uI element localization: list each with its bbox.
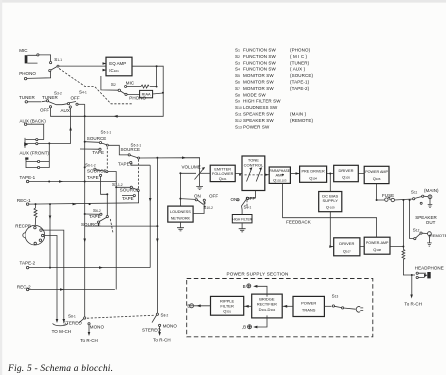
svg-text:S1-1: S1-1: [54, 57, 62, 62]
svg-text:POWER AMP: POWER AMP: [365, 170, 388, 174]
svg-text:PHONO: PHONO: [19, 71, 36, 76]
svg-text:MONO: MONO: [90, 324, 105, 329]
svg-text:DRIVER: DRIVER: [339, 241, 354, 246]
svg-text:PHONO: PHONO: [129, 96, 146, 101]
svg-text:S6: S6: [235, 80, 240, 85]
svg-text:HIGH FILTER SW: HIGH FILTER SW: [243, 99, 281, 104]
svg-text:B: B: [243, 284, 246, 289]
svg-text:(SOURCE): (SOURCE): [290, 73, 313, 78]
svg-text:S8-1: S8-1: [68, 314, 76, 319]
svg-text:SPEAKER SW: SPEAKER SW: [243, 118, 274, 123]
svg-text:TAPE: TAPE: [87, 175, 99, 180]
svg-text:S10-2: S10-2: [203, 205, 213, 210]
svg-text:SUPPLY: SUPPLY: [322, 198, 338, 203]
svg-text:FUNCTION SW: FUNCTION SW: [243, 54, 276, 59]
svg-text:AUX (BACK): AUX (BACK): [20, 119, 47, 124]
svg-text:MONITOR SW: MONITOR SW: [243, 80, 274, 85]
svg-text:OFF: OFF: [40, 108, 49, 113]
svg-text:STEREO: STEREO: [142, 327, 161, 332]
svg-text:MIC: MIC: [126, 81, 135, 86]
svg-text:CONTROL: CONTROL: [244, 162, 264, 167]
svg-text:D301-D304: D301-D304: [259, 307, 276, 312]
svg-text:TAPE 2: TAPE 2: [118, 161, 133, 166]
svg-text:OFF: OFF: [246, 196, 255, 201]
svg-text:FEEDBACK: FEEDBACK: [286, 220, 311, 225]
svg-text:Fig. 5 - Schema a blocchi.: Fig. 5 - Schema a blocchi.: [7, 364, 113, 374]
svg-text:ON: ON: [194, 194, 201, 199]
svg-text:Q108: Q108: [373, 247, 381, 252]
svg-text:REC-1: REC-1: [17, 198, 31, 203]
svg-text:FUSE: FUSE: [382, 193, 394, 198]
svg-text:HEADPHONE: HEADPHONE: [415, 265, 444, 270]
svg-text:(MAIN): (MAIN): [424, 188, 439, 193]
svg-text:OFF: OFF: [71, 96, 80, 101]
svg-text:S12: S12: [235, 118, 242, 123]
svg-text:HIGH FILTER: HIGH FILTER: [232, 217, 252, 221]
svg-text:TAPE-2: TAPE-2: [20, 261, 36, 266]
svg-text:OUT: OUT: [426, 220, 436, 225]
svg-text:(REMOTE): (REMOTE): [429, 233, 446, 238]
svg-text:To R-CH: To R-CH: [404, 301, 422, 306]
svg-text:Q105: Q105: [342, 175, 350, 180]
svg-text:S6-2: S6-2: [93, 208, 101, 213]
svg-text:MONITOR SW: MONITOR SW: [243, 86, 274, 91]
svg-text:S2: S2: [235, 54, 240, 59]
svg-text:(TUNER): (TUNER): [290, 60, 310, 65]
svg-text:S12: S12: [413, 228, 420, 233]
svg-text:MIC: MIC: [19, 48, 28, 53]
svg-text:Q-109: Q-109: [326, 204, 335, 209]
svg-text:(PHONO): (PHONO): [290, 48, 311, 53]
svg-text:TAPE: TAPE: [92, 150, 104, 155]
svg-text:Q104: Q104: [309, 175, 317, 180]
svg-text:FUNCTION SW: FUNCTION SW: [243, 60, 276, 65]
svg-text:S8-2: S8-2: [161, 313, 169, 318]
svg-text:IC101: IC101: [109, 68, 119, 73]
svg-text:S4: S4: [235, 67, 240, 72]
svg-text:S8: S8: [235, 92, 240, 97]
svg-text:RECTIFIER: RECTIFIER: [257, 303, 277, 307]
svg-text:OFF: OFF: [209, 194, 218, 199]
svg-text:NETWORK: NETWORK: [171, 216, 191, 220]
svg-text:RECPB: RECPB: [15, 223, 31, 228]
svg-text:,B: ,B: [242, 325, 246, 330]
svg-text:POWER-AMP: POWER-AMP: [366, 241, 389, 245]
svg-text:TO M-CH: TO M-CH: [52, 329, 72, 334]
svg-text:FUNCTION SW: FUNCTION SW: [243, 48, 276, 53]
svg-text:S9: S9: [235, 99, 240, 104]
svg-text:FUNCTION SW: FUNCTION SW: [243, 67, 276, 72]
svg-text:TAPE: TAPE: [89, 214, 101, 219]
svg-text:S13: S13: [235, 124, 242, 129]
svg-text:TAPE-1: TAPE-1: [20, 175, 36, 180]
svg-text:TRANS: TRANS: [302, 307, 316, 312]
svg-text:Q107: Q107: [343, 248, 351, 253]
svg-text:SOURCE: SOURCE: [121, 147, 141, 152]
svg-text:VOLUME: VOLUME: [182, 164, 201, 169]
svg-text:S13: S13: [332, 294, 339, 299]
svg-text:S2: S2: [111, 82, 116, 87]
svg-text:S11: S11: [411, 189, 418, 194]
svg-text:FOLLOWER: FOLLOWER: [212, 172, 234, 176]
svg-text:REC-2: REC-2: [17, 284, 31, 289]
svg-text:AUX: AUX: [61, 108, 70, 113]
svg-text:SOURCE: SOURCE: [87, 136, 107, 141]
svg-text:(TAPE-1): (TAPE-1): [290, 80, 310, 85]
svg-text:S11: S11: [235, 112, 242, 117]
svg-text:S6-1-2: S6-1-2: [85, 163, 96, 168]
svg-text:S3: S3: [235, 60, 240, 65]
svg-text:Q102,103: Q102,103: [273, 177, 287, 182]
svg-text:BRIDGE: BRIDGE: [259, 297, 275, 302]
svg-text:MONITOR SW: MONITOR SW: [243, 73, 274, 78]
svg-text:ON: ON: [231, 197, 238, 202]
svg-text:Q106: Q106: [373, 176, 381, 181]
svg-text:POWER SUPPLY SECTION: POWER SUPPLY SECTION: [226, 271, 288, 276]
svg-text:AUX (FRONT): AUX (FRONT): [20, 151, 50, 156]
svg-text:EMITTER: EMITTER: [214, 167, 231, 171]
svg-text:S10: S10: [235, 105, 242, 110]
svg-text:LOUDNESS: LOUDNESS: [170, 210, 191, 214]
svg-text:S4-1: S4-1: [79, 90, 87, 95]
svg-text:MONO: MONO: [163, 324, 178, 329]
svg-text:STEREO: STEREO: [63, 321, 82, 326]
svg-text:MODE SW: MODE SW: [243, 92, 266, 97]
svg-text:TUNER: TUNER: [42, 95, 58, 100]
svg-text:S9-1: S9-1: [244, 205, 252, 210]
svg-text:POWER SW: POWER SW: [243, 124, 270, 129]
svg-text:EQ AMP: EQ AMP: [109, 61, 126, 66]
svg-text:TUNER: TUNER: [19, 95, 35, 100]
svg-text:SPEAKER SW: SPEAKER SW: [243, 112, 274, 117]
svg-text:TAPE: TAPE: [122, 196, 134, 201]
svg-text:Q101: Q101: [219, 176, 227, 181]
svg-text:PRE DRIVER: PRE DRIVER: [301, 170, 324, 174]
svg-text:( M I C ): ( M I C ): [290, 54, 308, 59]
svg-text:S5-1-1: S5-1-1: [101, 130, 112, 135]
svg-text:POWER: POWER: [301, 300, 316, 305]
svg-text:S7: S7: [235, 86, 240, 91]
svg-text:B: B: [187, 304, 190, 309]
svg-text:( AUX ): ( AUX ): [290, 67, 306, 72]
svg-text:(TAPE-2): (TAPE-2): [290, 86, 310, 91]
svg-text:LOUDNESS SW: LOUDNESS SW: [243, 105, 278, 110]
svg-text:(MAIN ): (MAIN ): [290, 112, 307, 117]
svg-text:DRIVER: DRIVER: [338, 168, 353, 173]
svg-text:To R-CH: To R-CH: [153, 338, 171, 343]
svg-text:S5: S5: [235, 73, 240, 78]
svg-text:S1: S1: [235, 48, 240, 53]
svg-text:SOURCE: SOURCE: [87, 168, 107, 173]
svg-text:S3-2: S3-2: [54, 91, 62, 96]
svg-text:To R-CH: To R-CH: [80, 338, 98, 343]
svg-text:SOURCE: SOURCE: [120, 188, 140, 193]
svg-text:Q301: Q301: [223, 309, 231, 314]
svg-text:(REMOTE): (REMOTE): [290, 118, 313, 123]
svg-text:SOURCE: SOURCE: [81, 222, 101, 227]
